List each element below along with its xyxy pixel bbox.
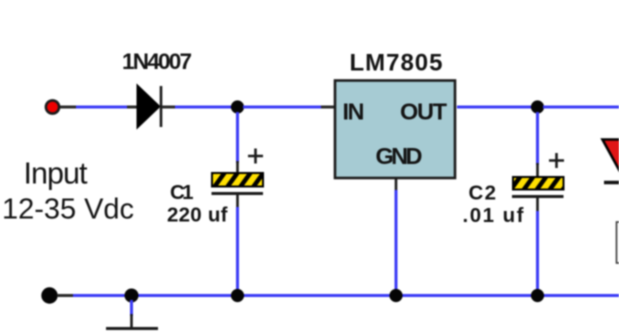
ground symbol	[106, 300, 158, 329]
junction dot below C1	[231, 289, 244, 302]
terminal input + (red)	[46, 100, 59, 113]
svg-text:1N4007: 1N4007	[122, 49, 192, 74]
svg-text:C1: C1	[170, 181, 194, 204]
junction dot ground node	[125, 289, 139, 303]
svg-text:OUT: OUT	[400, 99, 448, 125]
capacitor C2	[512, 153, 564, 197]
wire: C2 vertical lower	[536, 198, 539, 291]
junction dot below regulator GND	[389, 289, 402, 302]
diode D1 1N4007	[137, 85, 161, 129]
node A junction dot	[231, 100, 244, 113]
terminal input - (black)	[41, 287, 57, 303]
node B junction dot	[531, 100, 544, 113]
wire: C2 vertical upper	[536, 112, 539, 178]
wire: top rail red terminal to diode (black stub + blue)	[59, 106, 137, 109]
junction dot below C2	[531, 289, 544, 302]
LED D2 (red, cut off at right edge)	[603, 140, 619, 183]
svg-text:12-35 Vdc: 12-35 Vdc	[2, 194, 134, 226]
resistor R1 (cut off at right edge)	[617, 222, 619, 263]
svg-text:.01 uf: .01 uf	[463, 204, 524, 227]
svg-text:LM7805: LM7805	[350, 49, 443, 76]
wire: node B to right edge	[543, 106, 619, 109]
capacitor C1	[212, 149, 264, 194]
regulator U1 LM7805 box	[335, 81, 455, 179]
svg-text:Input: Input	[24, 157, 89, 191]
svg-text:IN: IN	[343, 99, 365, 125]
wire: diode to node A	[162, 106, 234, 109]
wire: regulator OUT to node B	[457, 106, 532, 109]
svg-text:C2: C2	[469, 182, 497, 205]
wire: regulator GND down to rail	[395, 179, 398, 291]
svg-text:GND: GND	[376, 143, 423, 169]
wire: C1 vertical lower	[236, 195, 239, 291]
wire: node A to regulator IN	[243, 106, 334, 109]
svg-text:220 uf: 220 uf	[167, 204, 228, 227]
wire: C1 vertical upper	[236, 112, 239, 174]
wire: bottom rail	[57, 294, 619, 297]
